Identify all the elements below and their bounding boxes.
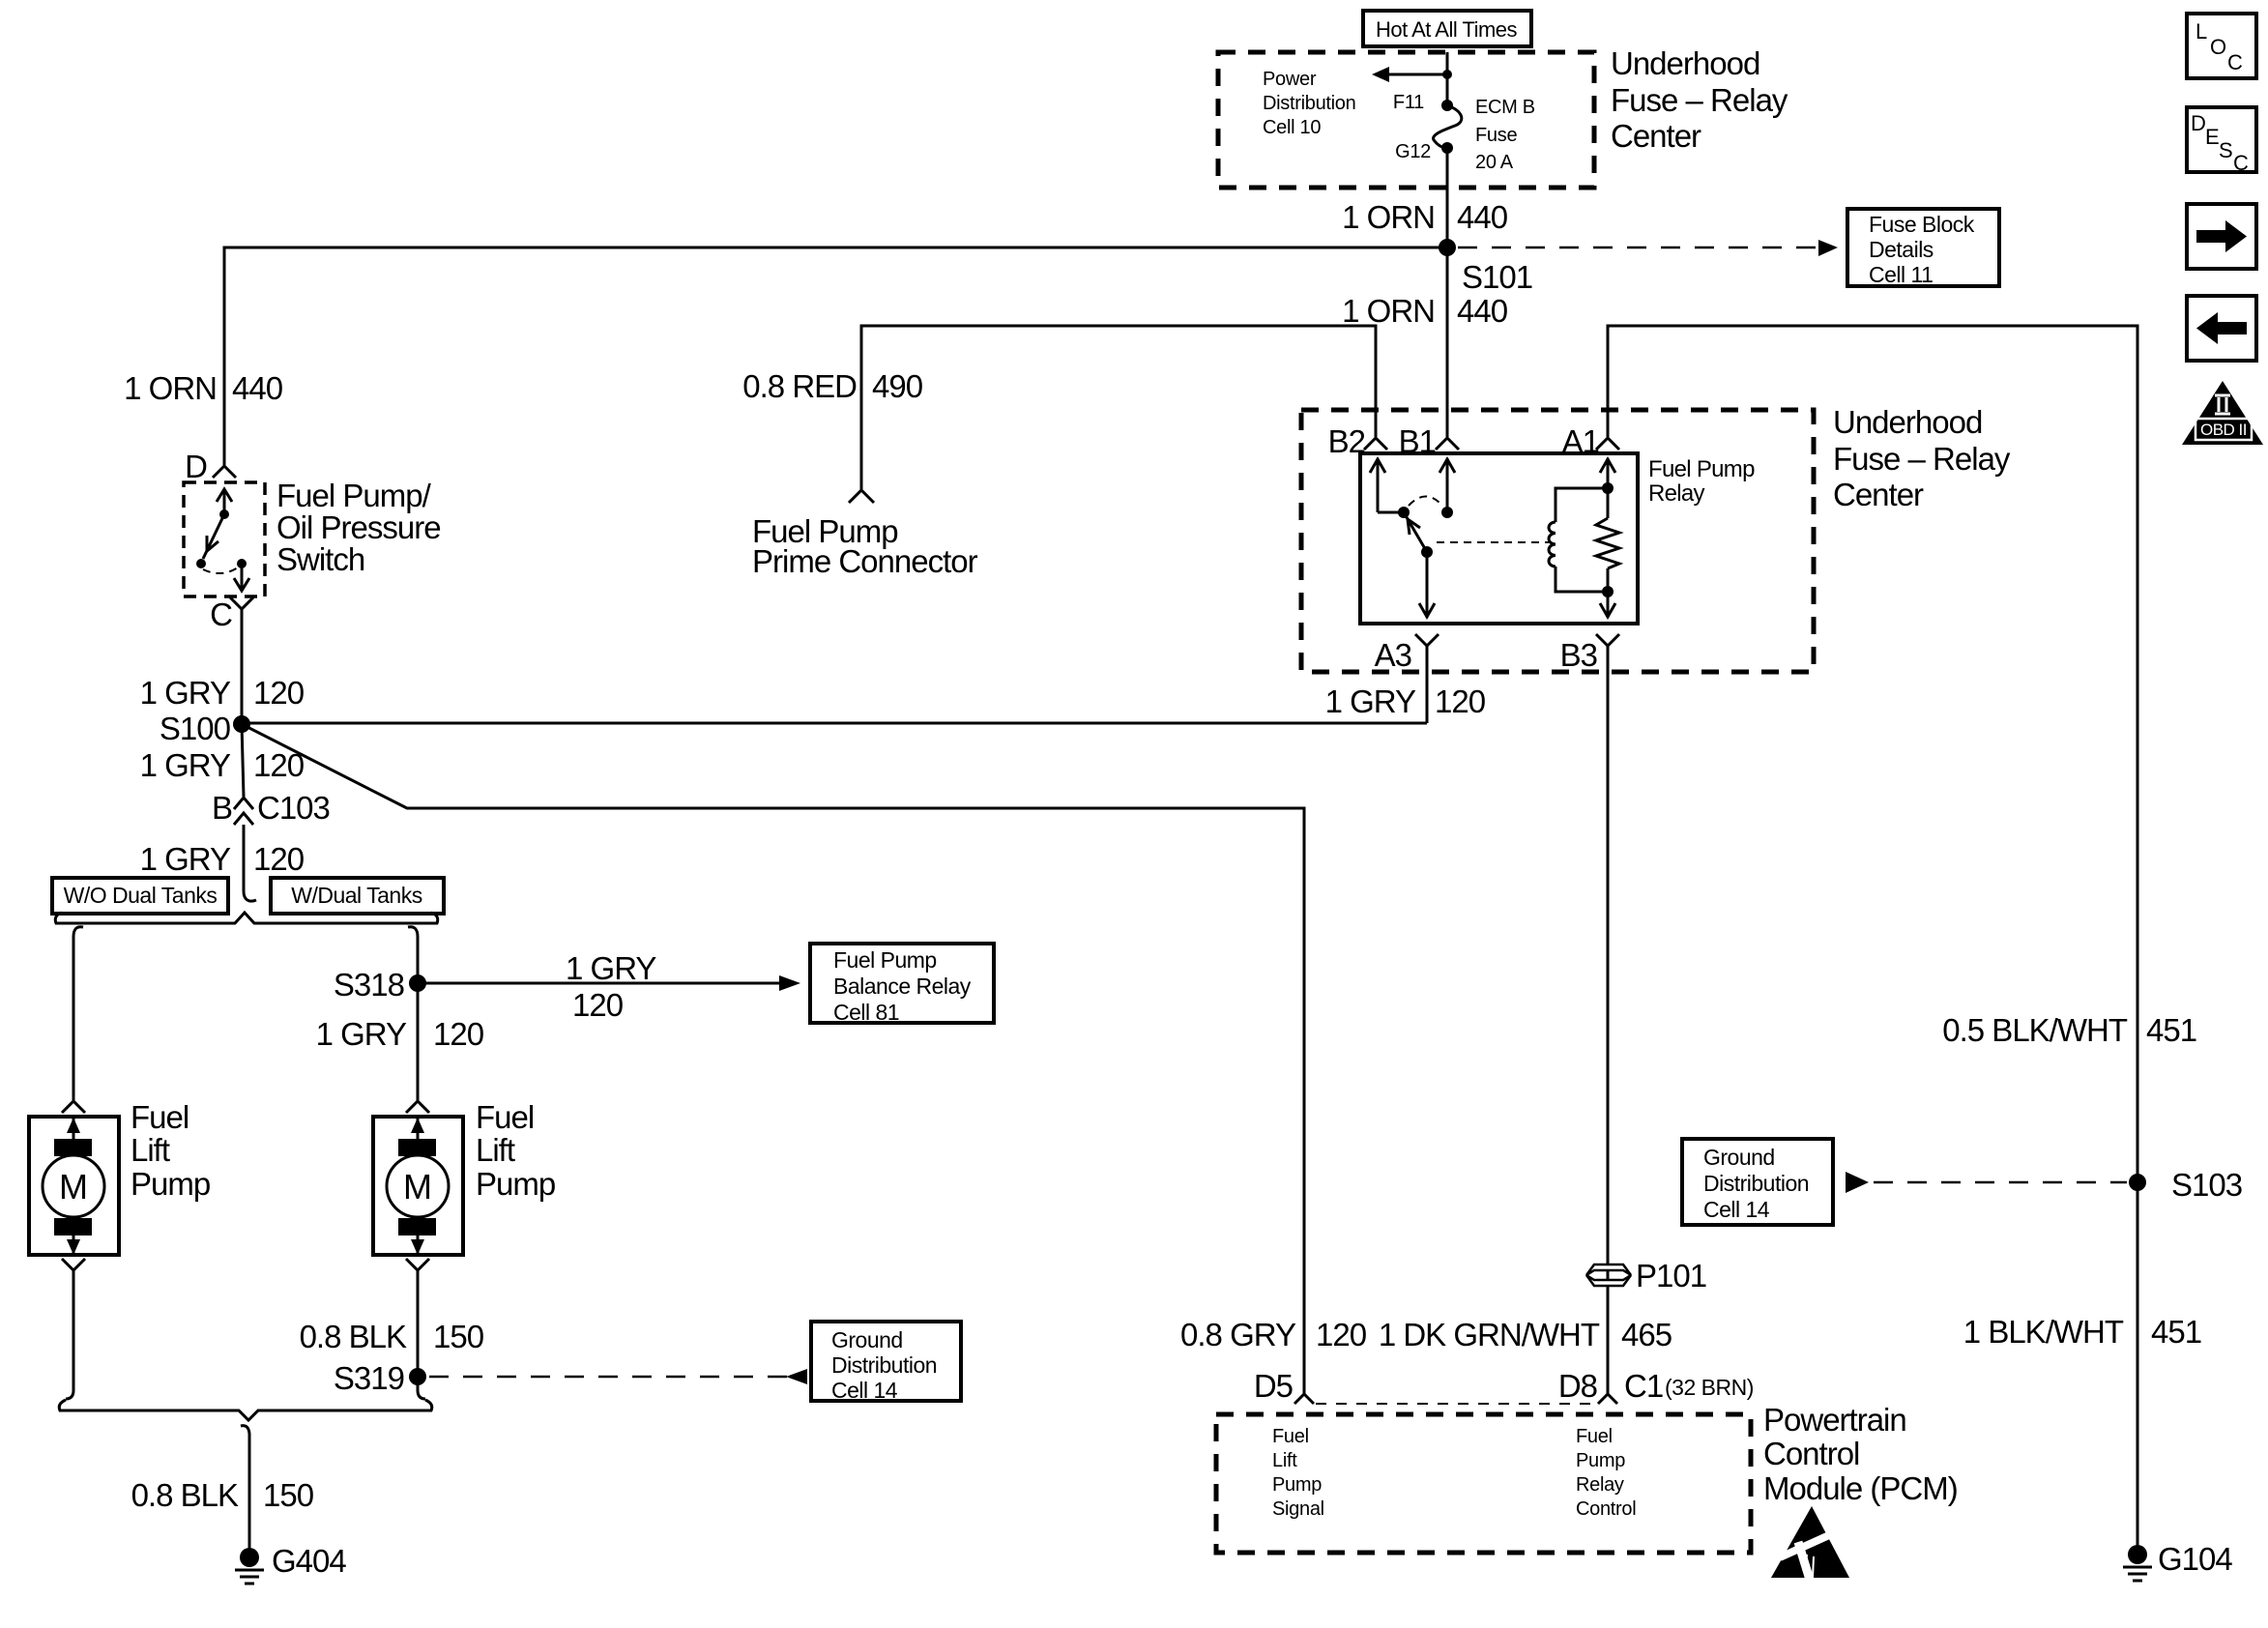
relay A3 internal arrow <box>1419 552 1435 618</box>
label Underhood Fuse-Relay Center (top) <box>1611 45 1788 154</box>
label Fuel Pump/ Oil Pressure Switch <box>276 478 441 577</box>
connector pin chevron B1 <box>1436 438 1459 450</box>
svg-text:Fuse: Fuse <box>1475 125 1517 146</box>
wire 1 GRY 120 from S318 down to right pump <box>417 983 420 1100</box>
svg-text:Module (PCM): Module (PCM) <box>1763 1470 1958 1506</box>
svg-text:G104: G104 <box>2158 1541 2232 1577</box>
connector pin chevron B3 <box>1596 634 1619 646</box>
svg-text:1 GRY: 1 GRY <box>140 841 231 877</box>
svg-text:Fuel Pump: Fuel Pump <box>833 947 937 973</box>
switch dashed throw arc <box>203 567 238 573</box>
svg-text:Fuel: Fuel <box>131 1099 189 1135</box>
svg-text:B3: B3 <box>1560 637 1597 673</box>
svg-text:150: 150 <box>263 1477 314 1513</box>
svg-text:Ground: Ground <box>831 1327 903 1352</box>
switch contact node (open) <box>196 559 206 568</box>
svg-text:120: 120 <box>253 841 305 877</box>
svg-text:Relay: Relay <box>1648 480 1705 507</box>
svg-text:Lift: Lift <box>1272 1450 1297 1471</box>
reference box Ground Distribution Cell 14 (left) <box>811 1322 961 1403</box>
wire label 1 GRY 120 (S100 to C103) <box>140 747 305 783</box>
wire label 1 GRY 120 (A3) <box>1325 683 1486 719</box>
wire from Hot At All Times into fuse box down to fuse <box>1446 52 1449 105</box>
svg-text:Cell 14: Cell 14 <box>831 1378 898 1403</box>
wire 1 ORN 440 from S101 left to oil pressure switch feed <box>224 247 1447 465</box>
relay coil top node <box>1602 482 1614 494</box>
wire label 1 DK GRN/WHT 465 <box>1379 1317 1672 1352</box>
svg-text:Fuse – Relay: Fuse – Relay <box>1833 441 2011 477</box>
wire label 1 BLK/WHT 451 <box>1963 1314 2201 1350</box>
connector pin chevron A1 <box>1596 438 1619 450</box>
connector pin chevron B2 <box>1364 438 1387 450</box>
wire A1 feed from top right rail <box>1608 326 2137 1547</box>
svg-text:451: 451 <box>2151 1314 2201 1350</box>
svg-text:S101: S101 <box>1462 259 1532 295</box>
wire 1 GRY 120 below C103 <box>243 825 246 876</box>
relay A1 internal arrow <box>1600 458 1615 518</box>
svg-text:Pump: Pump <box>131 1166 210 1202</box>
svg-text:451: 451 <box>2146 1012 2196 1048</box>
icon DESC box <box>2187 107 2256 175</box>
svg-text:Pump: Pump <box>1576 1450 1625 1471</box>
svg-text:1 ORN: 1 ORN <box>124 370 217 406</box>
connector C1 dashed face line <box>1316 1403 1596 1405</box>
connector label C1 (32 BRN) <box>1624 1368 1754 1404</box>
wire label 1 GRY 120 (S318 to pump) <box>316 1016 484 1052</box>
svg-text:S100: S100 <box>160 711 231 746</box>
ground G104 <box>2123 1545 2152 1581</box>
svg-text:Distribution: Distribution <box>1703 1171 1809 1196</box>
label Fuel Lift Pump (left) <box>131 1099 210 1202</box>
relay blade node <box>1421 546 1433 558</box>
svg-text:120: 120 <box>253 747 305 783</box>
svg-text:Center: Center <box>1833 477 1924 512</box>
svg-text:Balance Relay: Balance Relay <box>833 974 972 999</box>
wire 1 GRY 120 from S100 down to C103 <box>242 724 244 797</box>
svg-text:Powertrain: Powertrain <box>1763 1402 1906 1438</box>
Hot At All Times label box <box>1363 11 1531 46</box>
svg-text:Lift: Lift <box>476 1132 515 1168</box>
svg-text:P101: P101 <box>1636 1258 1706 1294</box>
svg-text:1 DK GRN/WHT: 1 DK GRN/WHT <box>1379 1317 1600 1352</box>
svg-text:120: 120 <box>572 987 624 1023</box>
svg-text:Underhood: Underhood <box>1833 404 1982 440</box>
svg-text:120: 120 <box>1316 1317 1367 1352</box>
fuel lift pump motor M (left, w/o dual tanks) <box>29 1117 119 1255</box>
svg-text:1 GRY: 1 GRY <box>140 747 231 783</box>
svg-text:M: M <box>403 1167 432 1206</box>
switch contact node C with arrow down <box>234 559 249 591</box>
PCM pin function Fuel Pump Relay Control <box>1576 1426 1636 1520</box>
svg-text:M: M <box>59 1167 88 1206</box>
wire label 1 GRY 120 (balance relay feed) <box>566 950 656 1023</box>
svg-text:Distribution: Distribution <box>1263 93 1355 114</box>
dashed reference to S103 <box>1846 1172 2127 1193</box>
svg-text:20 A: 20 A <box>1475 152 1514 173</box>
reference box Ground Distribution Cell 14 (right) <box>1682 1139 1833 1225</box>
svg-text:Relay: Relay <box>1576 1474 1624 1496</box>
Underhood Fuse-Relay Center dashed box (top, power distribution) <box>1218 52 1594 188</box>
fuel pump / oil pressure switch S4 dashed box <box>184 482 265 596</box>
wire 1 GRY 120 from S318 to balance relay <box>418 975 800 991</box>
connector chevron below right pump <box>406 1259 429 1270</box>
connector pin chevron A3 <box>1415 634 1439 646</box>
svg-text:S103: S103 <box>2171 1167 2242 1203</box>
connector chevron above right pump <box>406 1101 429 1113</box>
svg-text:(32 BRN): (32 BRN) <box>1665 1375 1754 1400</box>
svg-text:0.8 BLK: 0.8 BLK <box>300 1319 407 1354</box>
svg-text:O: O <box>2210 35 2226 59</box>
wire 1 GRY 120 from relay A3 down to S100 rail <box>1426 646 1429 723</box>
svg-text:F11: F11 <box>1393 92 1424 113</box>
svg-text:Control: Control <box>1576 1498 1636 1520</box>
option box W/O Dual Tanks <box>52 878 228 914</box>
fuel lift pump motor M (right, w/dual tanks) <box>373 1117 463 1255</box>
wire wiggle between option boxes <box>244 876 256 901</box>
svg-text:C: C <box>2233 151 2249 175</box>
svg-text:Cell 10: Cell 10 <box>1263 117 1321 138</box>
wire branch arrow to Power Distribution <box>1372 67 1447 82</box>
fuel pump relay box <box>1360 453 1638 624</box>
svg-text:B: B <box>212 790 232 826</box>
svg-text:120: 120 <box>253 675 305 711</box>
svg-text:1 BLK/WHT: 1 BLK/WHT <box>1963 1314 2124 1350</box>
splice S100 <box>233 715 250 733</box>
connector pin chevron C <box>230 597 253 609</box>
svg-text:1 GRY: 1 GRY <box>566 950 656 986</box>
relay pin B2 internal arrow <box>1370 458 1404 512</box>
wire 0.8 GRY 120 diagonal from S100 to PCM D5 <box>242 724 1304 1395</box>
svg-text:Details: Details <box>1869 237 1934 262</box>
svg-text:120: 120 <box>1435 683 1486 719</box>
wire label 1 GRY 120 (below C103) <box>140 841 305 877</box>
label Powertrain Control Module (PCM) <box>1763 1402 1958 1506</box>
Underhood Fuse-Relay Center dashed box (relay) <box>1301 410 1814 672</box>
svg-text:0.8 BLK: 0.8 BLK <box>131 1477 239 1513</box>
ground G404 <box>235 1548 264 1584</box>
svg-text:Fuel: Fuel <box>1576 1426 1613 1447</box>
svg-text:E: E <box>2205 125 2219 149</box>
svg-text:Power: Power <box>1263 69 1317 90</box>
svg-text:Underhood: Underhood <box>1611 45 1759 81</box>
svg-text:1 GRY: 1 GRY <box>1325 683 1416 719</box>
svg-text:Signal: Signal <box>1272 1498 1324 1520</box>
connector C103 double chevron <box>234 798 253 825</box>
svg-text:Oil Pressure: Oil Pressure <box>276 509 441 545</box>
svg-text:440: 440 <box>1457 293 1508 329</box>
ground merge brace (pumps to G404) <box>59 1400 432 1420</box>
switch pin D arrow inside <box>217 489 232 512</box>
svg-text:C1: C1 <box>1624 1368 1663 1404</box>
svg-text:A3: A3 <box>1375 637 1411 673</box>
svg-text:Fuse – Relay: Fuse – Relay <box>1611 82 1788 118</box>
label Fuel Pump Prime Connector <box>752 513 978 579</box>
dashed reference S319 to Ground Distribution <box>429 1369 807 1384</box>
connector pin chevron (fuel pump prime connector) <box>849 490 874 503</box>
option split brace <box>55 913 438 923</box>
reference box Fuse Block Details Cell 11 <box>1847 209 1999 287</box>
svg-text:490: 490 <box>872 368 923 404</box>
wire 0.8 BLK 150 to G404 <box>241 1426 249 1549</box>
svg-text:465: 465 <box>1621 1317 1672 1352</box>
svg-text:D: D <box>185 449 207 484</box>
option box W/Dual Tanks <box>271 878 444 914</box>
svg-text:Cell 11: Cell 11 <box>1869 262 1933 287</box>
svg-text:120: 120 <box>433 1016 484 1052</box>
svg-text:W/O Dual Tanks: W/O Dual Tanks <box>64 883 218 908</box>
dashed reference arrow S101 to Fuse Block Details <box>1458 240 1838 256</box>
svg-text:1 GRY: 1 GRY <box>316 1016 407 1052</box>
wire drop to left fuel lift pump <box>73 927 83 1100</box>
svg-text:C: C <box>210 596 232 632</box>
svg-text:Ground: Ground <box>1703 1145 1775 1170</box>
icon LOC box <box>2187 14 2256 78</box>
wire label 0.8 BLK 150 <box>300 1319 484 1354</box>
label Fuel Lift Pump (right) <box>476 1099 555 1202</box>
splice S318 <box>409 974 426 992</box>
svg-text:OBD II: OBD II <box>2200 421 2247 439</box>
wire 1 GRY 120 from switch C to S100 <box>241 609 244 724</box>
connector pin chevron D <box>213 466 236 478</box>
icon OBD II triangle <box>2182 381 2263 445</box>
svg-text:ECM B: ECM B <box>1475 97 1535 118</box>
relay dashed throw arc <box>1409 497 1442 507</box>
svg-text:Cell 14: Cell 14 <box>1703 1197 1770 1222</box>
svg-text:Distribution: Distribution <box>831 1352 937 1378</box>
reference box Fuel Pump Balance Relay Cell 81 <box>810 944 994 1025</box>
wire 1 ORN 440 from S101 down to relay B1 <box>1446 247 1449 437</box>
relay coil bottom node <box>1602 586 1614 597</box>
svg-text:S: S <box>2219 138 2232 162</box>
wire 1 GRY 120 from S100 right to relay A3 drop <box>242 722 1427 725</box>
svg-text:Prime Connector: Prime Connector <box>752 543 978 579</box>
svg-text:Pump: Pump <box>1272 1474 1322 1496</box>
relay internal dashed actuator link <box>1437 541 1549 543</box>
PCM pin function Fuel Lift Pump Signal <box>1272 1426 1324 1520</box>
svg-text:S319: S319 <box>334 1360 404 1396</box>
svg-text:0.5 BLK/WHT: 0.5 BLK/WHT <box>1942 1012 2128 1048</box>
ESD sensitive symbol <box>1771 1506 1862 1580</box>
wire label 1 GRY 120 (switch to S100) <box>140 675 305 711</box>
icon forward arrow box <box>2187 204 2256 269</box>
relay B3 internal arrow <box>1600 568 1615 618</box>
wire label 0.8 GRY 120 <box>1180 1317 1367 1352</box>
icon back arrow box <box>2187 296 2256 361</box>
node junction at F11 branch <box>1442 70 1452 79</box>
svg-text:G404: G404 <box>272 1543 346 1579</box>
splice S103 <box>2129 1174 2146 1191</box>
svg-text:1 GRY: 1 GRY <box>140 675 231 711</box>
svg-text:1 ORN: 1 ORN <box>1342 293 1435 329</box>
svg-text:Fuel: Fuel <box>476 1099 534 1135</box>
splice S319 <box>409 1368 426 1385</box>
svg-text:Fuse Block: Fuse Block <box>1869 212 1975 237</box>
wire 1 DK GRN/WHT 465 from relay B3 to PCM D8 <box>1607 646 1610 1395</box>
label Underhood Fuse-Relay Center (relay) <box>1833 404 2011 512</box>
svg-text:Switch: Switch <box>276 541 364 577</box>
svg-text:Fuel: Fuel <box>1272 1426 1309 1447</box>
relay resistor <box>1596 518 1619 568</box>
splice S101 <box>1439 239 1456 256</box>
svg-text:G12: G12 <box>1395 141 1431 162</box>
relay pin B1 internal arrow <box>1439 458 1455 509</box>
svg-text:Center: Center <box>1611 118 1701 154</box>
connector pin chevron D5 <box>1294 1394 1314 1404</box>
svg-text:150: 150 <box>433 1319 484 1354</box>
wire label 1 ORN 440 (above S101) <box>1342 199 1508 235</box>
svg-text:Pump: Pump <box>476 1166 555 1202</box>
svg-text:0.8 GRY: 0.8 GRY <box>1180 1317 1296 1352</box>
svg-text:Fuel Pump: Fuel Pump <box>1648 456 1755 482</box>
PCM dashed box <box>1216 1414 1751 1553</box>
connector pin chevron D8 <box>1598 1394 1617 1404</box>
wire fuse output down to S101 <box>1446 148 1449 247</box>
label Power Distribution Cell 10 <box>1263 69 1355 138</box>
svg-text:Lift: Lift <box>131 1132 170 1168</box>
svg-text:D: D <box>2191 111 2205 135</box>
fuse F11/G12 ECM B Fuse 20 A <box>1434 100 1462 154</box>
relay B1 contact node <box>1441 507 1453 518</box>
wire drop to right fuel lift pump <box>408 927 418 983</box>
value label ECM B Fuse 20 A <box>1475 97 1535 173</box>
wire label 0.8 RED 490 <box>742 368 922 404</box>
svg-text:C: C <box>2227 50 2243 74</box>
wire 0.8 BLK 150 from right pump to S319 <box>418 1270 425 1399</box>
svg-text:D8: D8 <box>1558 1368 1597 1404</box>
wire left pump to splice brace <box>66 1270 73 1399</box>
wire label 0.8 BLK 150 (to G404) <box>131 1477 314 1513</box>
svg-text:L: L <box>2195 19 2207 44</box>
wire label 0.5 BLK/WHT 451 <box>1942 1012 2196 1048</box>
relay switch blade with arrow <box>1404 512 1427 552</box>
svg-text:Control: Control <box>1763 1436 1859 1471</box>
wire label 1 ORN 440 (left branch) <box>124 370 283 406</box>
svg-text:S318: S318 <box>334 967 404 1003</box>
svg-text:D5: D5 <box>1254 1368 1293 1404</box>
connector chevron above left pump <box>62 1101 85 1113</box>
relay common contact node <box>1398 507 1410 518</box>
pass-through grommet P101 <box>1586 1265 1631 1286</box>
svg-text:Hot At All Times: Hot At All Times <box>1376 17 1518 42</box>
svg-text:W/Dual Tanks: W/Dual Tanks <box>291 883 422 908</box>
svg-text:0.8 RED: 0.8 RED <box>742 368 857 404</box>
svg-text:Cell 81: Cell 81 <box>833 1000 899 1025</box>
switch blade with arrow <box>203 514 224 559</box>
relay coil <box>1549 488 1608 592</box>
switch pivot node <box>219 509 229 519</box>
connector chevron below left pump <box>62 1259 85 1270</box>
svg-text:C103: C103 <box>257 790 330 826</box>
svg-text:440: 440 <box>1457 199 1508 235</box>
wire label 1 ORN 440 (to B1) <box>1342 293 1508 329</box>
svg-text:440: 440 <box>232 370 283 406</box>
svg-text:1 ORN: 1 ORN <box>1342 199 1435 235</box>
label Fuel Pump Relay <box>1648 456 1755 507</box>
wire 0.8 RED 490 prime connector riser <box>861 326 1376 489</box>
svg-text:Fuel Pump/: Fuel Pump/ <box>276 478 432 513</box>
